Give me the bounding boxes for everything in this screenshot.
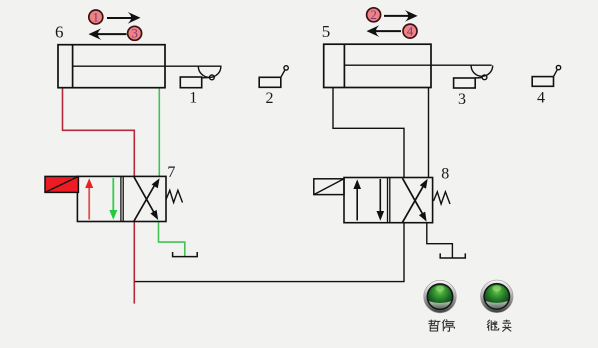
wire green: cylinder 6 right port to valve 7 [158,89,160,177]
cylinder 6 [58,45,222,88]
svg-text:6: 6 [55,23,64,42]
cylinder 5 [324,44,492,87]
spring valve 8 [434,192,451,204]
svg-text:8: 8 [441,166,449,183]
step marker 2 [367,7,381,22]
wire black: cylinder 5 right port to valve 8 [428,88,430,177]
wire red: supply stub below valve 7 [133,222,135,304]
svg-text:2: 2 [370,7,377,22]
solenoid valve 8 [314,179,344,195]
arrow step 1 (right) [107,12,141,24]
svg-text:2: 2 [266,90,274,107]
valve 7 crossed arrows [134,177,160,221]
arrow step 3 (left) [89,28,127,40]
arrow step 4 (left) [367,25,402,37]
label continue (Chinese 继续) [487,320,511,332]
svg-text:1: 1 [93,9,100,24]
svg-text:3: 3 [458,91,466,108]
limit switch 4 [532,65,561,86]
wire black: supply junction to valve 8 bottom [135,223,404,282]
svg-text:5: 5 [322,22,331,41]
wire red: cylinder 6 left port to valve 7 [63,89,135,177]
valve 8 body [344,178,433,223]
svg-text:4: 4 [537,89,545,106]
exhaust symbol valve 8 [440,253,465,258]
wire green: valve 7 exhaust [159,222,185,257]
svg-text:7: 7 [167,164,175,181]
label pause (Chinese 暂停) [428,319,454,331]
svg-text:4: 4 [407,24,414,39]
limit switch 3 [454,66,493,89]
step marker 4 [403,24,417,39]
exhaust symbol valve 7 [173,252,198,257]
button continue [481,280,514,313]
spring valve 7 [166,190,183,202]
wire black: cylinder 5 left port to valve 8 [333,88,404,177]
button pause [424,280,457,313]
valve 7 red flow arrow (up) [85,178,93,219]
limit switch 2 [259,66,288,88]
step marker 1 [89,9,103,24]
svg-text:3: 3 [131,26,138,41]
valve 7 body [77,176,166,221]
valve 8 crossed arrows [403,178,428,222]
valve 7 green flow arrow (down) [109,178,117,220]
wire black: valve 8 exhaust [427,223,453,258]
step marker 3 [128,26,142,41]
valve 8 left arrows (up/down) [353,179,384,221]
svg-text:1: 1 [189,89,197,106]
limit switch 1 [180,66,221,88]
solenoid valve 7 [45,176,78,192]
arrow step 2 (right) [384,10,418,22]
